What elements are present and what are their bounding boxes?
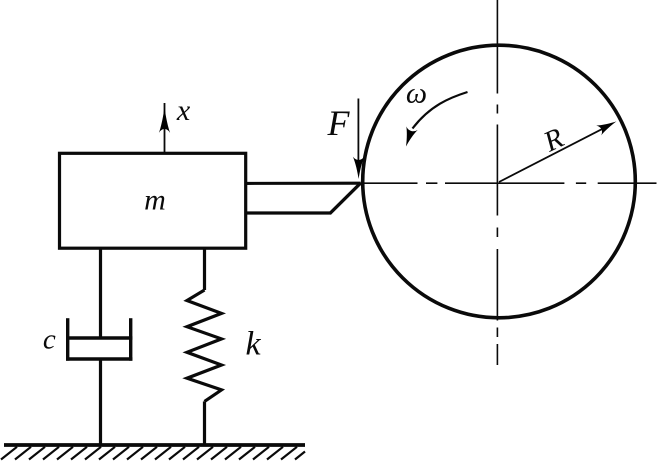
svg-text:F: F xyxy=(327,103,351,143)
svg-text:ω: ω xyxy=(406,77,427,110)
svg-text:x: x xyxy=(176,94,191,127)
svg-text:c: c xyxy=(43,324,56,356)
svg-text:m: m xyxy=(144,184,166,217)
svg-text:k: k xyxy=(245,326,261,363)
